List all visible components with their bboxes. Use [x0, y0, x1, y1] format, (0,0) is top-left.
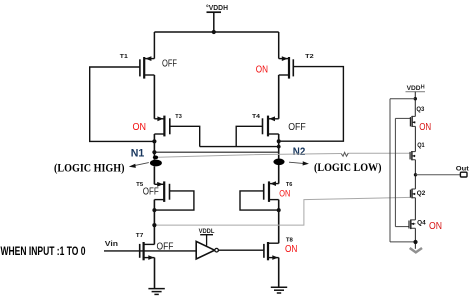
wire gray N1 to Q2 gate [154, 197, 410, 225]
wire bottom tee [390, 241, 416, 243]
junction dot N2 gate tie [277, 139, 281, 143]
power VDD H right block [406, 84, 426, 116]
port Out [456, 166, 470, 177]
transistor Q1 [410, 142, 425, 160]
svg-text:T4: T4 [252, 114, 261, 120]
ground T7 [148, 289, 164, 295]
transistor T3 [133, 114, 183, 137]
transistor T2 [256, 32, 314, 79]
svg-text:ON: ON [256, 64, 268, 75]
junction dot out [414, 173, 417, 176]
wire gray N1 to Q1 gate [158, 153, 410, 157]
svg-text:ON: ON [279, 189, 290, 199]
wire T5 gate loop [154, 191, 194, 210]
svg-text:ON: ON [285, 244, 297, 255]
op-amp U1 inverter [196, 241, 218, 259]
junction dot T6 loop [277, 208, 281, 212]
svg-text:OFF: OFF [157, 241, 174, 253]
node N2 [273, 146, 305, 165]
svg-text:Vin: Vin [105, 239, 119, 248]
node N1 [131, 148, 162, 167]
wire stack s4 [414, 228, 416, 249]
wire stack s2 [414, 160, 416, 189]
ground T8 [271, 287, 287, 293]
wire stack s1 [414, 126, 416, 151]
wire feedback vertical 1 [389, 99, 391, 242]
svg-text:Q1: Q1 [417, 142, 425, 149]
wire stack s3 [414, 198, 416, 220]
wire T3 gate [170, 126, 200, 146]
junction dot link-N1 [152, 150, 156, 154]
svg-text:ON: ON [429, 220, 442, 232]
power VDDL [199, 229, 215, 246]
wire inverter out [218, 249, 264, 251]
transistor Q2 [410, 189, 425, 199]
transistor T6 [264, 181, 293, 202]
wire N1 to N2 link [154, 151, 278, 153]
junction dot vddh tee [414, 97, 417, 100]
svg-text:T8: T8 [286, 238, 294, 244]
svg-text:OFF: OFF [143, 187, 159, 198]
wire top rail [154, 31, 278, 33]
transistor T8 [264, 238, 298, 287]
svg-text:T6: T6 [286, 182, 293, 188]
transistor Q3 [395, 106, 431, 133]
svg-text:(LOGIC HIGH): (LOGIC HIGH) [54, 161, 125, 175]
transistor T5 [136, 181, 169, 202]
wire T2 gate riser to N2 [279, 67, 344, 142]
junction dot gray tap [152, 223, 156, 227]
transistor T1 [120, 32, 177, 79]
svg-text:VDDL: VDDL [199, 229, 215, 235]
wire gate vertical 2 [394, 118, 396, 226]
wire vdd tee [390, 98, 415, 100]
svg-text:T1: T1 [120, 54, 129, 60]
wire Vin input [104, 250, 196, 252]
crossing w mark [341, 152, 348, 156]
wire to out port [416, 174, 461, 176]
transistor T4 [252, 114, 306, 137]
svg-text:T2: T2 [305, 54, 314, 60]
wire T1 gate loop to N1 [90, 67, 155, 141]
wire N2 drain chain [278, 75, 280, 243]
wire T6 gate loop [240, 191, 279, 210]
svg-text:Out: Out [456, 166, 470, 173]
junction dot bus-N2 [277, 145, 281, 149]
svg-text:ON: ON [133, 121, 147, 133]
junction dot ground tee [413, 240, 417, 244]
svg-text:T7: T7 [136, 233, 144, 239]
svg-text:VDD: VDD [407, 85, 421, 92]
svg-text:(LOGIC LOW): (LOGIC LOW) [314, 160, 382, 174]
ground chevron right block [410, 248, 422, 252]
power VDDH [206, 4, 228, 32]
transistor T7 [136, 233, 174, 288]
junction rail dot [212, 30, 216, 34]
svg-text:Q4: Q4 [417, 219, 426, 226]
svg-text:Q3: Q3 [416, 106, 425, 113]
svg-text:OFF: OFF [288, 121, 306, 133]
svg-text:N2: N2 [293, 146, 306, 158]
wire N1 drain chain [153, 75, 155, 244]
svg-text:OFF: OFF [162, 59, 177, 70]
junction dot T5 loop [152, 208, 156, 212]
svg-text:N1: N1 [131, 148, 145, 160]
svg-text:ON: ON [419, 121, 431, 133]
transistor Q4 [395, 219, 442, 232]
wire T4 gate [236, 126, 262, 146]
svg-text:T3: T3 [175, 114, 182, 120]
label LOGIC LOW with arrow [289, 160, 382, 174]
svg-text:Q2: Q2 [417, 190, 426, 197]
svg-text:WHEN INPUT :1 TO 0: WHEN INPUT :1 TO 0 [1, 244, 86, 258]
label LOGIC HIGH with arrow [54, 161, 149, 175]
svg-text:H: H [421, 84, 425, 90]
wire gate bus to N2 [200, 146, 279, 148]
svg-text:°VDDH: °VDDH [206, 4, 228, 12]
junction dot N1 gate tie [152, 139, 156, 143]
